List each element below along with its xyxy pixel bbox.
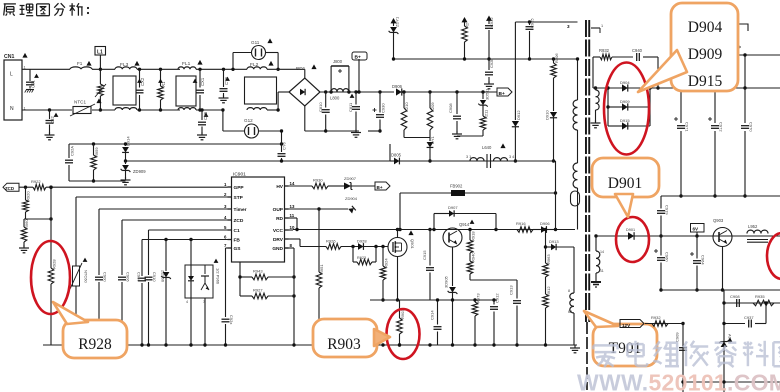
svg-text:ZCD: ZCD (5, 186, 14, 191)
wire rail 290 (661, 289, 780, 291)
svg-text:C971: C971 (685, 122, 690, 132)
svg-text:R928: R928 (78, 336, 112, 353)
wire GPP net (19, 186, 33, 188)
capacitor C930 (368, 90, 386, 132)
svg-text:R903: R903 (327, 336, 361, 353)
svg-text:D914: D914 (126, 136, 131, 146)
transformer primary winding W3 (568, 289, 574, 314)
capacitor C960 (654, 236, 670, 292)
svg-text:D901: D901 (608, 175, 642, 192)
wire C1 net (149, 229, 228, 231)
svg-text:D906: D906 (540, 221, 550, 226)
connector CN1 (4, 53, 28, 120)
zener ZD905 (444, 275, 458, 345)
callout D904 D909 D915 (671, 3, 738, 91)
zener ZD511 (478, 88, 489, 116)
transistor Q903 (713, 218, 732, 292)
wire diode join (649, 88, 651, 126)
wire HV seg2 (328, 185, 344, 187)
svg-text:R210: R210 (404, 102, 409, 112)
diode D907 loop (432, 205, 497, 231)
svg-text:L952: L952 (748, 224, 758, 229)
svg-text:R211: R211 (484, 109, 489, 119)
wire rail 144 (69, 143, 282, 145)
svg-text:R920: R920 (26, 191, 31, 201)
IC right pins (272, 181, 295, 252)
svg-text:ZD909: ZD909 (133, 169, 146, 174)
svg-text:D909: D909 (688, 46, 723, 63)
svg-text:ZD907: ZD907 (344, 176, 357, 181)
wire rail 59 (394, 58, 578, 60)
svg-text:C908: C908 (448, 103, 453, 113)
svg-text:3D511: 3D511 (485, 88, 490, 100)
svg-text:ZCD: ZCD (234, 218, 244, 224)
svg-text:C906: C906 (126, 272, 131, 282)
resistor R943 (238, 269, 295, 280)
diode D805 (390, 144, 470, 164)
callout D901 (592, 158, 659, 197)
wire Q901 drain (397, 230, 399, 238)
wire IC bottom branch (239, 262, 241, 296)
svg-text:3 4: 3 4 (509, 155, 514, 159)
svg-text:3: 3 (567, 24, 570, 29)
resistor R916 (517, 227, 533, 233)
svg-text:D904: D904 (620, 80, 630, 85)
wire L FL3-FL1 (137, 68, 180, 70)
svg-text:C92A: C92A (70, 146, 75, 156)
svg-text:R928: R928 (52, 259, 57, 269)
resistor R959 (91, 142, 99, 182)
svg-text:D901: D901 (626, 228, 635, 232)
transistor Q901 mosfet (388, 230, 415, 256)
resistor R940 (467, 252, 475, 280)
capacitor C925 (526, 18, 535, 61)
ground S1 (595, 120, 597, 123)
capacitor C92x (222, 315, 235, 345)
svg-text:13: 13 (290, 204, 295, 209)
svg-text:STP: STP (234, 195, 244, 201)
filter FL2 (245, 61, 277, 110)
label B+ output (497, 88, 512, 97)
svg-text:C972: C972 (719, 122, 724, 132)
svg-text:C919: C919 (665, 205, 670, 215)
diode DY1 (427, 135, 435, 162)
svg-text:CY6: CY6 (282, 141, 287, 150)
capacitor C919 (657, 196, 670, 238)
svg-text:CY6: CY6 (224, 76, 229, 85)
transformer T901 core (584, 20, 590, 390)
wire top right rail (738, 54, 780, 56)
capacitor C970 (741, 86, 754, 197)
inductor L800 (330, 89, 354, 101)
rectifier D915 (608, 118, 650, 130)
ground S2 (591, 282, 601, 287)
resistor R209 (427, 90, 435, 141)
label B+ HV (375, 182, 390, 190)
svg-text:CX2: CX2 (140, 77, 145, 86)
svg-text:R960: R960 (24, 219, 29, 229)
highlight ellipse D904 D909 D915 (604, 63, 649, 155)
resistor R960 (21, 219, 29, 247)
primary ground rail (305, 130, 359, 132)
wire ZCD net (122, 219, 228, 221)
resistor R920 (23, 187, 31, 219)
rectifier D904 (593, 80, 650, 92)
resistor R918 (467, 228, 475, 261)
capacitor C915 (422, 228, 434, 300)
capacitor CX1 (193, 68, 205, 112)
wire 12V line (645, 323, 683, 325)
svg-text:6A: 6A (568, 310, 573, 314)
zener ZD911 (389, 16, 400, 61)
diode D914 (122, 136, 130, 163)
capacitor C811 (348, 90, 360, 131)
wire rail 236 (596, 235, 780, 237)
svg-text:FL3: FL3 (120, 62, 129, 68)
wire output rail 89 (650, 87, 780, 89)
transformer primary winding W2 (573, 163, 577, 188)
wire N line from CN1 (22, 109, 72, 111)
svg-text:1: 1 (224, 182, 227, 187)
resistor R927 (240, 288, 296, 299)
wire N line to FL3 (92, 109, 115, 111)
snubber C940 (632, 48, 660, 90)
capacitor C912 (490, 293, 500, 345)
svg-text:1: 1 (601, 24, 603, 28)
svg-text:C92: C92 (50, 116, 55, 124)
wire GS net (226, 247, 228, 249)
resistor R963 (543, 254, 551, 294)
svg-text:D906: D906 (392, 84, 403, 89)
capacitor C92 (46, 108, 59, 134)
svg-text:14: 14 (600, 250, 604, 254)
svg-text:C912: C912 (495, 293, 500, 303)
svg-text:D910: D910 (545, 110, 550, 120)
wire primary top (577, 59, 579, 100)
inductor L952 (747, 224, 768, 242)
wire R928 to bus (50, 284, 52, 345)
wire DRV seg (341, 246, 358, 248)
wire FB net (142, 239, 228, 241)
svg-text:Q901: Q901 (410, 239, 415, 250)
capacitor C91 (25, 69, 39, 92)
resistor R923 loop (351, 245, 377, 265)
resistor R210 (401, 90, 409, 137)
svg-text:R935: R935 (755, 294, 765, 299)
svg-text:R963: R963 (546, 254, 551, 264)
svg-text:ZD904: ZD904 (345, 196, 358, 201)
svg-text:C913: C913 (509, 285, 514, 295)
svg-text:L640: L640 (482, 145, 492, 150)
svg-text:R959: R959 (94, 147, 99, 157)
wire L FL2 to bridge (267, 68, 305, 70)
svg-text:CX1: CX1 (200, 77, 205, 86)
svg-text:Q903: Q903 (713, 218, 724, 223)
capacitor C932 (485, 16, 494, 61)
svg-text:DRV: DRV (273, 237, 284, 243)
wire GND net vertical (293, 248, 295, 345)
transistor Q914 (443, 220, 474, 247)
svg-text:GS: GS (234, 246, 242, 252)
highlight ellipse D901 (616, 217, 649, 262)
svg-text:R930: R930 (313, 178, 323, 183)
svg-text:4: 4 (224, 215, 227, 220)
secondary winding S2 (594, 234, 604, 281)
svg-text:C964: C964 (701, 255, 706, 265)
svg-text:8: 8 (290, 243, 293, 248)
wire pin3 line (515, 21, 577, 23)
optocoupler P966 (185, 238, 221, 345)
IC U901 body (232, 172, 285, 263)
svg-text:R916: R916 (516, 221, 526, 226)
wire VCC net (289, 229, 294, 231)
zener ZD904 (345, 196, 358, 214)
svg-text:R927: R927 (253, 288, 263, 293)
resistor R211 (457, 109, 489, 136)
wire line 229 right (398, 229, 576, 231)
svg-text:D907: D907 (448, 205, 458, 210)
svg-text:B+: B+ (499, 91, 505, 97)
capacitor C910 (145, 272, 158, 345)
callout T901 (593, 324, 657, 366)
capacitor C928 (484, 58, 494, 89)
node L1 (95, 47, 106, 72)
svg-text:R209: R209 (430, 102, 435, 112)
transformer primary winding W1 (573, 100, 577, 130)
capacitor C908 (448, 90, 462, 139)
svg-text:VCC: VCC (273, 228, 284, 234)
resistor R924 (380, 245, 388, 302)
svg-text:J800: J800 (333, 59, 343, 64)
wire B+ from bridge (320, 91, 394, 93)
filter FL1 (176, 60, 203, 110)
capacitor C810 (318, 90, 330, 132)
svg-text:F1: F1 (77, 61, 83, 66)
svg-text:7: 7 (224, 243, 227, 248)
capacitor C92A (65, 144, 75, 181)
svg-text:Q914: Q914 (459, 222, 470, 227)
wire N FL2 seg (267, 109, 278, 111)
svg-text:2: 2 (224, 192, 227, 197)
svg-text:C937: C937 (744, 315, 754, 320)
svg-text:C810: C810 (318, 102, 323, 112)
wire line 303 (724, 302, 780, 304)
svg-text:R932: R932 (651, 315, 661, 320)
wire W3 to bus (573, 313, 575, 345)
svg-text:14: 14 (290, 181, 295, 186)
diode D913 (544, 239, 574, 250)
svg-text:GPP: GPP (234, 185, 245, 191)
wire L line from CN1 (22, 68, 70, 70)
bus ground rail (43, 344, 577, 346)
svg-text:D909: D909 (620, 99, 630, 104)
svg-text:11: 11 (600, 269, 604, 273)
resistor R951 (316, 209, 324, 345)
wire Q914 emitter (452, 247, 454, 286)
ground below C92 (49, 132, 51, 135)
fusible resistor FB902 (451, 190, 465, 196)
svg-text:FB902: FB902 (450, 184, 463, 189)
wire primary node vertical (555, 161, 557, 230)
wire 219 link (24, 218, 51, 220)
svg-text:C908: C908 (730, 294, 740, 299)
wire OUP net (289, 208, 349, 210)
svg-text:C960: C960 (665, 252, 670, 262)
filter FL3 (113, 61, 140, 110)
highlight ellipse R928 (31, 241, 70, 314)
svg-text:D805: D805 (391, 153, 402, 158)
svg-text:DY1: DY1 (430, 135, 435, 144)
secondary winding S1 (594, 86, 599, 122)
svg-text:5: 5 (224, 225, 227, 230)
wire STP net (76, 196, 228, 198)
svg-text:3D905: 3D905 (444, 275, 449, 288)
svg-text:GND: GND (272, 246, 283, 252)
svg-text:WWW.520101.COM: WWW.520101.COM (577, 370, 780, 392)
wire to W3 (573, 247, 575, 293)
svg-text:L800: L800 (330, 96, 340, 101)
svg-text:NTC60: NTC60 (84, 270, 89, 283)
svg-text:12V: 12V (622, 323, 631, 328)
ground bus (574, 345, 576, 348)
wire rail 161 (126, 160, 556, 162)
svg-text:R973: R973 (476, 293, 481, 303)
capacitor C916 (137, 272, 147, 345)
svg-text:D915: D915 (620, 118, 630, 123)
resistor R973 (472, 293, 480, 345)
label 12V (620, 320, 644, 329)
wire Timer net (99, 208, 228, 210)
svg-text:C914: C914 (430, 310, 435, 320)
svg-text:D904: D904 (688, 19, 723, 36)
svg-text:OUP: OUP (273, 207, 284, 213)
zener ZD909 (121, 161, 147, 179)
svg-text:G12: G12 (244, 118, 253, 123)
svg-text:C916: C916 (137, 272, 142, 282)
spark gap G12 (223, 118, 282, 138)
diode D906b (533, 221, 557, 233)
svg-text:R922: R922 (31, 179, 41, 184)
svg-text:C932: C932 (489, 17, 494, 27)
svg-text:C910: C910 (152, 272, 157, 282)
capacitor CX2 (136, 68, 146, 112)
label B+ takeoff (352, 52, 367, 94)
zener ZD966 (161, 238, 171, 345)
capacitor C971 (674, 86, 690, 197)
svg-text:R940: R940 (471, 252, 476, 262)
wire bottom right rail (683, 381, 780, 383)
secondary pin stub top (591, 27, 600, 29)
capacitor C914 (430, 298, 442, 345)
svg-text:FL1: FL1 (182, 61, 191, 67)
resistor R928 (48, 268, 54, 284)
svg-text:1/2 P966: 1/2 P966 (216, 268, 221, 285)
resistor R912 (543, 286, 551, 345)
transformer L640 (466, 143, 556, 168)
svg-text:R918: R918 (471, 231, 476, 241)
zener ZD907 (344, 176, 375, 190)
svg-text:L: L (10, 72, 13, 78)
highlight ellipse R903 (387, 309, 420, 359)
resistor R903 (397, 300, 405, 347)
wire W1-W2 (577, 130, 579, 163)
wire rail 181 (69, 180, 126, 182)
jumper J800 (329, 59, 350, 94)
wire N FL3-FL1 (137, 109, 180, 111)
wire N down to G12 line (222, 110, 224, 131)
resistor R930 (312, 183, 328, 189)
callout R928 (63, 320, 127, 358)
svg-text:3 1: 3 1 (466, 155, 471, 159)
ground primary (355, 130, 357, 133)
rectifier D901 (626, 228, 635, 240)
svg-text:NTC1: NTC1 (74, 100, 86, 105)
snubber R932 (593, 48, 633, 88)
wire GPP to IC (46, 186, 228, 188)
fuse element primary (571, 188, 580, 230)
svg-text:D912: D912 (516, 110, 521, 120)
diode D912 (512, 22, 521, 163)
wire HV net (289, 185, 313, 187)
wire C937 line (724, 323, 745, 325)
resistor R935 (753, 300, 774, 306)
svg-text:HV: HV (276, 184, 283, 190)
diode D910 (545, 78, 558, 163)
svg-text:C925: C925 (530, 18, 535, 28)
svg-text:C92b: C92b (489, 58, 494, 68)
svg-text:D915: D915 (688, 73, 723, 90)
svg-text:4: 4 (186, 300, 188, 304)
capacitor C913 (509, 280, 522, 345)
highlight ellipse right edge (767, 233, 780, 279)
svg-text:R912: R912 (546, 286, 551, 296)
capacitor CY5 (197, 108, 208, 140)
capacitor CY6 input (219, 68, 230, 103)
capacitor CY6b (278, 129, 287, 162)
wire N FL1 to junction (196, 109, 223, 111)
svg-text:C811: C811 (348, 102, 353, 112)
wire 12V down (682, 324, 684, 392)
resistor R1 (158, 68, 166, 112)
watermark url (577, 370, 780, 392)
wire RD stub (289, 217, 298, 219)
thermistor NTC1 (70, 98, 102, 116)
wire R210-R209 join (404, 137, 430, 139)
wire Q901 source (397, 257, 399, 301)
resistor R922 (33, 184, 46, 190)
capacitor C972 (708, 86, 724, 197)
diode D928 (357, 239, 388, 250)
wire FB902 net (400, 192, 556, 194)
capacitor C964 (690, 236, 706, 292)
svg-text:R951: R951 (319, 264, 324, 274)
svg-text:3: 3 (203, 300, 205, 304)
varistor TH1 (95, 69, 106, 111)
rectifier D909 (608, 99, 650, 111)
svg-text:B+: B+ (377, 185, 383, 190)
svg-text:11: 11 (290, 213, 295, 218)
resistor R952 (652, 321, 668, 327)
svg-text:C900: C900 (103, 272, 108, 282)
svg-text:N: N (10, 106, 14, 112)
wire N up to bridge (277, 92, 279, 110)
svg-text:FB: FB (234, 238, 241, 244)
svg-text:6: 6 (224, 235, 227, 240)
capacitor C908b (730, 294, 740, 307)
svg-text:C915: C915 (422, 250, 427, 260)
svg-text:D928: D928 (357, 239, 367, 244)
wire rail 196 (661, 195, 780, 197)
